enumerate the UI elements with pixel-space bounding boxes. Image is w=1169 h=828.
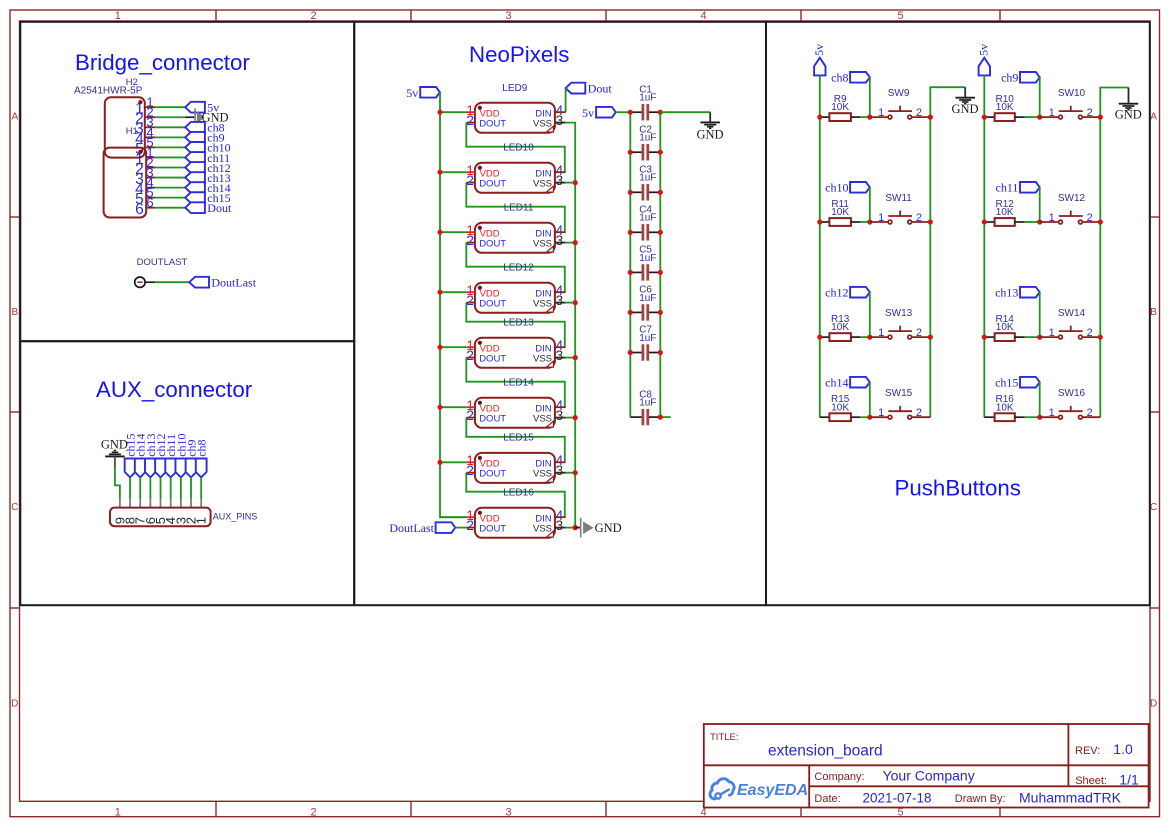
wire VSS bus (neopixels)	[566, 123, 580, 528]
wire cap bus right	[659, 112, 661, 417]
junction ch15	[1037, 415, 1042, 420]
wire ch10 to junction	[869, 187, 871, 222]
junction C2 right	[658, 150, 663, 155]
svg-text:NeoPixels: NeoPixels	[469, 42, 569, 67]
svg-text:DOUT: DOUT	[479, 178, 506, 189]
pin 4 of H2	[135, 125, 155, 148]
net flag ch15 (aux)	[123, 433, 137, 477]
resistor R16	[984, 394, 1025, 421]
svg-text:1: 1	[878, 107, 884, 119]
junction ch9	[1037, 115, 1042, 120]
section title PushButtons	[895, 476, 1021, 501]
net flag ch12 (aux)	[154, 433, 168, 477]
svg-text:3: 3	[556, 463, 564, 478]
pin 3 VSS of LED12	[555, 293, 566, 308]
svg-text:5v: 5v	[977, 44, 991, 56]
svg-text:C: C	[11, 502, 18, 513]
wire ch15 to junction	[1039, 382, 1041, 417]
net flag ch10	[185, 141, 230, 155]
svg-text:A2541HWR-5P: A2541HWR-5P	[74, 85, 143, 96]
wire R11 to junction	[860, 221, 870, 223]
wire C1 to GND	[660, 111, 710, 113]
label LED9	[502, 83, 527, 94]
wire VDD feed LED12	[440, 291, 466, 293]
svg-text:1: 1	[115, 807, 121, 819]
svg-text:B: B	[11, 307, 18, 318]
wire VSS link LED11	[566, 242, 576, 244]
junction C3 right	[658, 190, 663, 195]
svg-text:1: 1	[878, 407, 884, 419]
pin 2 DOUT of LED15	[466, 463, 475, 478]
junction 5v bus row 3	[817, 335, 822, 340]
junction C5 left	[628, 270, 633, 275]
pin 4 DIN of LED14	[555, 398, 566, 413]
svg-text:LED13: LED13	[503, 317, 534, 328]
neopixel LED16	[475, 508, 555, 538]
junction VDD LED14	[437, 405, 442, 410]
port DOUTLAST	[135, 277, 155, 287]
junction 5v bus row 2	[817, 219, 822, 224]
svg-text:PushButtons: PushButtons	[895, 476, 1021, 501]
svg-text:C: C	[1150, 502, 1157, 513]
svg-text:ch11: ch11	[996, 181, 1019, 195]
wire R9 to junction	[860, 116, 870, 118]
svg-text:Dout: Dout	[207, 201, 232, 215]
svg-text:extension_board: extension_board	[768, 743, 883, 760]
svg-text:3: 3	[505, 807, 511, 819]
connector H1 body	[104, 148, 147, 218]
section frame Bridge_connector	[20, 22, 354, 341]
svg-text:1: 1	[1049, 107, 1055, 119]
pin 2 of H1	[135, 155, 155, 178]
svg-text:GND: GND	[696, 128, 723, 142]
pin 8 of AUX_PINS	[122, 499, 137, 524]
title block Sheet field	[1075, 771, 1139, 787]
junction C2 left	[628, 150, 633, 155]
svg-text:3: 3	[556, 233, 564, 248]
junction C5 right	[658, 270, 663, 275]
section frame NeoPixels	[354, 22, 766, 605]
svg-text:LED10: LED10	[503, 142, 534, 153]
wire gnd bus (pushbuttons col)	[1100, 88, 1128, 418]
pin 1 of H1	[135, 145, 155, 168]
wire ch15 (aux)	[129, 477, 131, 499]
resistor R14	[984, 314, 1025, 341]
wire VDD feed LED15	[440, 461, 466, 463]
svg-text:1: 1	[878, 212, 884, 224]
section frame AUX_connector	[20, 341, 354, 605]
net flag ch9 (aux)	[184, 439, 198, 477]
svg-text:GND: GND	[595, 521, 622, 535]
capacitor C1	[630, 84, 660, 120]
pin 2 of H2	[135, 105, 155, 128]
wire 5v to cap bus	[616, 111, 631, 113]
wire ch9	[155, 136, 185, 138]
svg-text:2: 2	[466, 463, 474, 478]
wire ch12 to junction	[869, 292, 871, 337]
junction VSS LED12	[573, 300, 578, 305]
capacitor C5	[630, 245, 660, 281]
svg-text:SW10: SW10	[1058, 88, 1086, 99]
svg-text:2: 2	[466, 173, 474, 188]
pin 3 of H2	[135, 115, 155, 138]
wire 5v	[155, 106, 185, 108]
svg-text:2: 2	[1087, 107, 1093, 119]
svg-text:ch10: ch10	[825, 181, 848, 195]
junction ch10	[867, 219, 872, 224]
svg-text:VSS: VSS	[533, 178, 552, 189]
junction gnd bus row 1	[928, 115, 933, 120]
net flag ch12	[185, 161, 230, 175]
pin 5 of AUX_PINS	[153, 499, 168, 524]
title block Company field	[814, 767, 974, 783]
pin 3 VSS of LED11	[555, 233, 566, 248]
pin 1 VDD of LED12	[466, 283, 475, 298]
svg-text:DOUT: DOUT	[479, 469, 506, 480]
pin 1 VDD of LED13	[466, 338, 475, 353]
svg-text:Date:: Date:	[814, 793, 840, 805]
label LED13	[503, 317, 534, 328]
label LED14	[503, 377, 534, 388]
junction C8 right	[658, 415, 663, 420]
pin 2 DOUT of LED16	[466, 518, 475, 533]
label H2	[126, 77, 138, 88]
wire gnd bus (pushbuttons col)	[930, 87, 965, 417]
resistor R12	[984, 199, 1025, 226]
wire VDD feed LED9	[440, 111, 466, 113]
pin 1 VDD of LED11	[466, 223, 475, 238]
svg-text:10K: 10K	[996, 402, 1014, 413]
power flag 5v (neopixel bus)	[406, 86, 440, 100]
svg-text:Sheet:: Sheet:	[1075, 775, 1107, 787]
svg-text:ch9: ch9	[1001, 71, 1018, 85]
svg-text:GND: GND	[1115, 108, 1142, 122]
svg-text:Bridge_connector: Bridge_connector	[75, 50, 250, 75]
svg-text:2: 2	[916, 212, 922, 224]
section title Bridge_connector	[75, 50, 250, 75]
label AUX_PINS	[213, 511, 258, 521]
svg-text:2: 2	[466, 348, 474, 363]
junction gnd bus row 3	[1098, 335, 1103, 340]
svg-text:DoutLast: DoutLast	[211, 276, 256, 290]
svg-text:VSS: VSS	[533, 118, 552, 129]
ground GND (cap column)	[696, 112, 723, 141]
wire VSS link LED15	[566, 472, 576, 474]
svg-text:DOUT: DOUT	[479, 118, 506, 129]
svg-text:2: 2	[310, 10, 316, 22]
svg-text:4: 4	[700, 10, 706, 22]
svg-text:3: 3	[556, 293, 564, 308]
power flag 5v (cap bus)	[582, 106, 616, 120]
capacitor C8	[630, 389, 660, 425]
wire VDD feed LED14	[440, 406, 466, 408]
net flag ch13 (aux)	[144, 433, 158, 477]
section title NeoPixels	[469, 42, 569, 67]
svg-text:A: A	[1150, 112, 1157, 123]
wire VDD feed LED16	[440, 516, 466, 518]
pin 4 DIN of LED15	[555, 453, 566, 468]
neopixel LED9	[475, 103, 555, 133]
svg-text:ch15: ch15	[995, 376, 1018, 390]
net flag ch8	[185, 121, 224, 135]
svg-text:1: 1	[1049, 212, 1055, 224]
pin 1 VDD of LED15	[466, 453, 475, 468]
svg-text:5: 5	[897, 10, 903, 22]
resistor R9	[820, 94, 860, 121]
svg-text:SW9: SW9	[888, 88, 910, 99]
label A2541HWR-5P	[74, 85, 143, 96]
capacitor C3	[630, 165, 660, 201]
svg-text:VSS: VSS	[533, 413, 552, 424]
junction VSS LED14	[573, 415, 578, 420]
svg-text:1uF: 1uF	[639, 253, 656, 264]
pin 4 DIN of LED13	[555, 338, 566, 353]
svg-text:1uF: 1uF	[639, 333, 656, 344]
pin 3 of H1	[135, 165, 155, 188]
title block	[704, 724, 1149, 808]
neopixel LED13	[475, 338, 555, 368]
svg-text:D: D	[1150, 699, 1157, 710]
wire ch13	[155, 177, 185, 179]
junction VDD LED15	[437, 460, 442, 465]
label LED11	[504, 202, 534, 213]
pin 2 DOUT of LED10	[466, 173, 475, 188]
wire LED12 DOUT to LED13 DIN	[466, 303, 565, 348]
svg-text:DOUT: DOUT	[479, 413, 506, 424]
wire VSS link LED14	[566, 417, 576, 419]
pin 2 DOUT of LED12	[466, 293, 475, 308]
net flag ch11	[185, 151, 230, 165]
wire Dout	[155, 207, 185, 209]
junction gnd bus row 2	[1098, 219, 1103, 224]
pin 2 of AUX_PINS	[183, 499, 198, 524]
wire ch13 (aux)	[149, 477, 151, 499]
junction 5v bus row 3	[982, 335, 987, 340]
net flag ch10	[825, 181, 870, 195]
title block Drawn By field	[955, 789, 1122, 805]
wire R12 to junction	[1025, 221, 1040, 223]
pin 3 VSS of LED16	[555, 518, 566, 533]
ground GND (bridge)	[185, 108, 228, 126]
svg-text:Company:: Company:	[814, 771, 864, 783]
capacitor C4	[630, 205, 660, 241]
svg-text:2: 2	[1087, 212, 1093, 224]
neopixel LED15	[475, 453, 555, 483]
capacitor C7	[630, 325, 660, 361]
svg-text:10K: 10K	[831, 322, 849, 333]
svg-text:TITLE:: TITLE:	[710, 732, 739, 743]
switch SW9	[870, 88, 931, 119]
svg-text:B: B	[1150, 307, 1157, 318]
junction VSS LED10	[573, 180, 578, 185]
svg-text:LED11: LED11	[504, 202, 534, 213]
svg-text:SW13: SW13	[885, 308, 913, 319]
svg-text:1/1: 1/1	[1119, 771, 1139, 787]
svg-text:SW11: SW11	[885, 193, 912, 204]
junction ch8	[867, 115, 872, 120]
ground GND (aux)	[101, 437, 128, 467]
net flag ch14 (aux)	[134, 433, 148, 477]
svg-text:10K: 10K	[831, 402, 849, 413]
svg-text:2: 2	[1087, 327, 1093, 339]
junction C1 right	[658, 110, 663, 115]
junction C6 right	[658, 310, 663, 315]
label LED15	[503, 432, 534, 443]
junction 5v bus row 2	[982, 219, 987, 224]
svg-text:3: 3	[556, 173, 564, 188]
pin 3 VSS of LED10	[555, 173, 566, 188]
net flag ch14	[185, 181, 230, 195]
junction gnd bus row 2	[928, 219, 933, 224]
net flag ch12	[825, 286, 870, 300]
svg-text:1: 1	[194, 517, 209, 524]
svg-text:1uF: 1uF	[639, 93, 656, 104]
svg-text:10K: 10K	[831, 207, 849, 218]
svg-text:ch14: ch14	[825, 376, 848, 390]
svg-text:DOUT: DOUT	[479, 523, 506, 534]
connector H2 body	[105, 97, 145, 157]
wire cap bus left	[629, 112, 631, 417]
net flag 5v	[185, 101, 219, 115]
pin 3 VSS of LED14	[555, 408, 566, 423]
section frame PushButtons	[766, 22, 1150, 605]
net flag ch14	[825, 376, 870, 390]
svg-text:ch8: ch8	[195, 439, 209, 456]
svg-text:3: 3	[556, 348, 564, 363]
wire VDD feed LED10	[440, 171, 466, 173]
pin 6 of H1	[135, 195, 155, 218]
junction ch13	[1037, 335, 1042, 340]
net flag ch15	[995, 376, 1040, 390]
wire LED14 DOUT to LED15 DIN	[466, 418, 565, 463]
svg-text:ch13: ch13	[995, 286, 1018, 300]
ground GND (neopixels bottom)	[575, 518, 621, 538]
junction VSS LED16	[573, 525, 578, 530]
svg-text:SW15: SW15	[885, 388, 913, 399]
svg-text:2: 2	[466, 518, 474, 533]
wire LED15 DOUT to LED16 DIN	[466, 473, 565, 518]
label LED10	[503, 142, 534, 153]
pin 5 of H1	[135, 185, 155, 208]
wire ch8 (aux)	[200, 477, 202, 499]
junction gnd bus row 1	[1098, 115, 1103, 120]
wire DoutLast (bridge)	[155, 281, 189, 283]
junction 5v bus row 1	[817, 115, 822, 120]
ground GND (pushbuttons col)	[951, 87, 978, 116]
wire R10 to junction	[1025, 116, 1040, 118]
pin 4 DIN of LED11	[555, 223, 566, 238]
power flag 5v (pushbuttons col)	[977, 44, 991, 76]
pin 4 DIN of LED12	[555, 283, 566, 298]
wire ch11 (aux)	[170, 477, 172, 499]
svg-text:2: 2	[310, 807, 316, 819]
svg-text:2: 2	[466, 408, 474, 423]
pin 2 DOUT of LED13	[466, 348, 475, 363]
svg-text:DOUT: DOUT	[479, 298, 506, 309]
svg-text:2: 2	[1087, 407, 1093, 419]
pin 3 VSS of LED15	[555, 463, 566, 478]
wire ch14 to junction	[869, 382, 871, 417]
wire ch8	[155, 126, 185, 128]
pin 4 DIN of LED10	[555, 163, 566, 178]
pin 1 VDD of LED14	[466, 398, 475, 413]
wire LED9 DOUT to LED10 DIN	[466, 123, 565, 173]
label DOUTLAST	[137, 257, 188, 268]
svg-text:2: 2	[466, 113, 474, 128]
wire GND to AUX_PINS pin 9	[115, 467, 120, 500]
wire R15 to junction	[860, 416, 870, 418]
svg-text:VSS: VSS	[533, 298, 552, 309]
wire ch10 (aux)	[180, 477, 182, 499]
pin 9 of AUX_PINS	[112, 499, 127, 524]
wire LED11 DOUT to LED12 DIN	[466, 243, 565, 293]
svg-text:10K: 10K	[996, 207, 1014, 218]
svg-text:A: A	[11, 112, 18, 123]
svg-text:SW12: SW12	[1058, 193, 1086, 204]
neopixel LED10	[475, 163, 555, 193]
svg-text:AUX_connector: AUX_connector	[96, 377, 253, 402]
pin 4 DIN of LED9	[555, 103, 566, 118]
wire DoutLast to LED16 DOUT	[455, 527, 466, 529]
wire ch14	[155, 187, 185, 189]
label LED16	[503, 487, 534, 498]
resistor R11	[820, 199, 860, 226]
capacitor C6	[630, 285, 660, 321]
svg-text:DOUTLAST: DOUTLAST	[137, 257, 188, 268]
junction ch14	[867, 415, 872, 420]
svg-text:VSS: VSS	[533, 238, 552, 249]
pin 3 VSS of LED9	[555, 113, 566, 128]
svg-text:LED16: LED16	[503, 487, 534, 498]
svg-text:1.0: 1.0	[1113, 741, 1133, 757]
label LED12	[503, 262, 534, 273]
svg-text:1: 1	[1049, 407, 1055, 419]
junction gnd bus row 3	[928, 335, 933, 340]
wire ch12 (aux)	[160, 477, 162, 499]
net flag ch10 (aux)	[174, 433, 188, 477]
junction VDD LED9	[437, 110, 442, 115]
wire VDD feed LED13	[440, 346, 466, 348]
switch SW11	[870, 193, 931, 224]
svg-text:DOUT: DOUT	[479, 353, 506, 364]
wire VSS link LED16	[566, 527, 576, 529]
pin 4 of AUX_PINS	[163, 499, 178, 524]
svg-text:GND: GND	[951, 102, 978, 116]
junction C6 left	[628, 310, 633, 315]
wire LED13 DOUT to LED14 DIN	[466, 358, 565, 408]
junction C4 left	[628, 230, 633, 235]
svg-text:2: 2	[466, 233, 474, 248]
svg-text:5v: 5v	[582, 106, 594, 120]
svg-text:1uF: 1uF	[639, 133, 656, 144]
svg-text:2021-07-18: 2021-07-18	[863, 790, 932, 805]
pin 2 DOUT of LED14	[466, 408, 475, 423]
wire 5v bus (pushbuttons col)	[983, 75, 985, 417]
svg-text:AUX_PINS: AUX_PINS	[213, 511, 258, 521]
svg-text:5v: 5v	[812, 44, 826, 56]
wire ch9 to junction	[1039, 77, 1041, 117]
junction VSS LED11	[573, 240, 578, 245]
power flag 5v (pushbuttons col)	[812, 44, 826, 76]
junction C4 right	[658, 230, 663, 235]
svg-text:1uF: 1uF	[639, 213, 656, 224]
svg-text:3: 3	[556, 113, 564, 128]
net flag DoutLast (neopixels)	[389, 521, 455, 535]
junction C7 left	[628, 350, 633, 355]
wire VDD feed LED11	[440, 231, 466, 233]
svg-text:LED15: LED15	[503, 432, 534, 443]
wire ch13 to junction	[1039, 292, 1041, 337]
